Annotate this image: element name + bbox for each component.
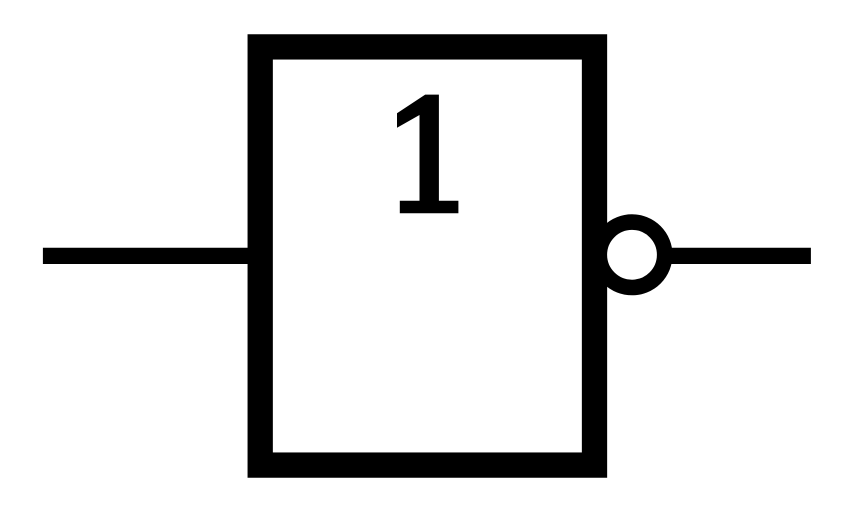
label "1": [397, 95, 458, 214]
inverter body U1 (IEC box): [260, 47, 594, 465]
wire output (right): [668, 248, 811, 264]
negation bubble: [599, 222, 664, 287]
wire input (left): [43, 248, 262, 264]
